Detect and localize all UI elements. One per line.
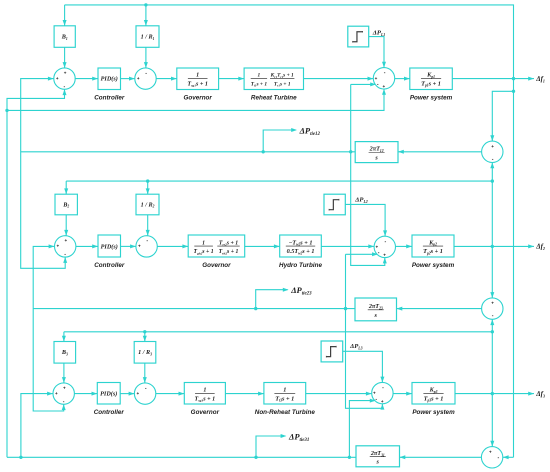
tie-line integrator 2piT12/s <box>355 142 398 163</box>
svg-text:-: - <box>64 252 66 258</box>
wire tie31 label arrow <box>256 434 286 457</box>
wire governor sum to governor 3 <box>156 392 185 396</box>
wire top line to B1 <box>63 5 67 26</box>
svg-text:1: 1 <box>202 240 205 246</box>
svg-text:Tsg1​s + 1: Tsg1​s + 1 <box>187 81 208 87</box>
svg-text:+: + <box>383 253 386 258</box>
wire area2 frequency feedback top line <box>66 179 494 182</box>
label Power system 1 <box>410 94 453 101</box>
svg-text:1: 1 <box>196 73 199 79</box>
svg-text:Reheat Turbine: Reheat Turbine <box>251 94 297 101</box>
sum junction ACE area 3 <box>53 383 74 405</box>
label Hydro Turbine <box>279 262 322 269</box>
wire tie23 vertical to area2 ACE and area3 ACE sum <box>33 244 65 411</box>
turbine block area 2 (hydro) <box>280 235 322 257</box>
svg-text:1 / R1​: 1 / R1​ <box>141 33 155 40</box>
wire ACE sum to controller 3 <box>74 392 97 396</box>
svg-text:-: - <box>145 70 147 76</box>
svg-text:+: + <box>64 70 67 75</box>
svg-text:Controller: Controller <box>94 409 125 416</box>
wire tie23 to area2 power sum lower-left and area3 power sum bottom <box>346 252 385 409</box>
svg-text:Power system: Power system <box>412 409 455 416</box>
wire tie31 vertical to area3 ACE sum <box>21 392 53 458</box>
wire B2 to sum <box>64 215 68 236</box>
svg-text:1 / R3​: 1 / R3​ <box>138 349 152 356</box>
svg-text:s: s <box>376 459 380 466</box>
wire ACE sum to controller 2 <box>76 244 98 248</box>
svg-text:-: - <box>492 156 494 162</box>
governor block area 1 <box>177 68 219 90</box>
svg-text:+: + <box>373 391 376 396</box>
svg-text:Tr1​s + 1: Tr1​s + 1 <box>274 81 291 87</box>
gain B2 <box>55 194 77 215</box>
sum junction governor area 2 <box>136 236 157 257</box>
sum junction governor area 3 <box>134 383 155 404</box>
tie-line integrator 2piT23/s <box>355 298 397 321</box>
svg-text:-: - <box>498 455 500 461</box>
svg-text:+: + <box>489 449 492 454</box>
wire governor to turbine 1 <box>219 77 245 81</box>
wire tie12 vertical to area1 ACE and area2 power sum <box>21 77 67 269</box>
governor block area 2 (hydro governor) <box>188 235 245 257</box>
wire controller to governor sum 3 <box>120 392 134 396</box>
wire power sum to power system 1 <box>395 77 410 81</box>
label Non-Reheat Turbine <box>255 409 316 416</box>
wire governor sum to governor 1 <box>156 77 177 81</box>
svg-text:B2​: B2​ <box>62 201 69 208</box>
svg-text:Hydro Turbine: Hydro Turbine <box>279 262 322 269</box>
svg-text:Controller: Controller <box>94 262 125 269</box>
svg-text:Tp2​s + 1: Tp2​s + 1 <box>423 248 443 255</box>
svg-text:PID(s): PID(s) <box>101 243 118 250</box>
svg-text:1: 1 <box>283 387 286 394</box>
svg-text:-: - <box>378 250 380 256</box>
svg-text:1: 1 <box>203 388 206 394</box>
wire tie23 label arrow <box>256 288 289 309</box>
label Governor 2 <box>202 262 231 269</box>
svg-text:+: + <box>57 244 60 249</box>
svg-text:-: - <box>382 385 384 391</box>
controller PID3 <box>97 383 120 405</box>
wire turbine to power sum 2 <box>321 244 374 248</box>
wire Df3 output <box>455 392 534 396</box>
controller PID2 <box>98 235 121 257</box>
wire area3 frequency feedback top line <box>64 330 494 333</box>
wire 1/R3 to governor sum <box>143 363 147 383</box>
svg-text:+: + <box>55 391 58 396</box>
label DP_L2 <box>354 196 368 203</box>
wire B1 to sum <box>63 47 67 68</box>
wire tie31 left vertical to area1 sums <box>5 89 66 457</box>
droop gain 1/R1 <box>136 26 159 48</box>
wire tie31 distribution line <box>7 456 356 459</box>
wire turbine to power sum 1 <box>304 77 374 81</box>
wire Df2 up into tie sum 12 <box>490 163 494 247</box>
svg-text:-: - <box>145 385 147 391</box>
svg-text:−Tw2​s + 1: −Tw2​s + 1 <box>289 239 313 246</box>
svg-text:Tp1​s + 1: Tp1​s + 1 <box>421 80 441 87</box>
wire turbine to power sum 3 <box>306 392 372 396</box>
wire controller to governor sum 2 <box>121 244 136 248</box>
wire tie23 distribution line <box>33 307 355 310</box>
svg-text:s: s <box>374 155 378 162</box>
svg-text:+: + <box>64 238 67 243</box>
svg-text:Governor: Governor <box>191 409 220 416</box>
wire Df2 output <box>454 244 534 248</box>
svg-text:B1​: B1​ <box>61 33 68 40</box>
svg-text:Trs2​s + 1: Trs2​s + 1 <box>219 240 238 246</box>
wire load step to power sum 2 <box>345 204 387 236</box>
wire tie sum tie12 to integrator box <box>398 150 482 154</box>
wire top line to 1/R1 <box>144 3 148 26</box>
sum junction power area 3 <box>372 382 393 404</box>
gain B3 <box>54 342 76 364</box>
sum junction ACE area 1 <box>54 68 75 90</box>
wire 1/R2 to governor sum <box>146 215 150 236</box>
label DP_L1 <box>372 30 386 37</box>
label Controller 2 <box>94 262 125 269</box>
wire load step to power sum 3 <box>343 351 385 382</box>
power system block area 1 <box>410 68 453 90</box>
svg-text:+: + <box>136 391 139 396</box>
turbine block area 3 (non-reheat) <box>264 383 306 405</box>
label Df1 <box>535 75 545 83</box>
sum junction power area 2 <box>374 236 395 258</box>
label DPtie12 <box>299 125 321 136</box>
wire top line to B3 <box>62 332 66 342</box>
svg-text:B3​: B3​ <box>61 349 68 356</box>
svg-text:+: + <box>63 385 66 390</box>
wire governor to turbine 3 <box>225 392 264 396</box>
sum junction governor area 1 <box>135 68 156 89</box>
load step source 2 <box>324 194 345 215</box>
wire top line to 1/R3 <box>143 330 147 341</box>
label Controller 3 <box>94 409 125 416</box>
wire 1/R1 to governor sum <box>144 47 148 68</box>
load step source 3 <box>321 341 343 362</box>
wire tie12 to area1 power sum lower-left <box>351 82 387 265</box>
svg-text:Tt1​s + 1: Tt1​s + 1 <box>251 81 268 87</box>
svg-text:-: - <box>146 238 148 244</box>
svg-text:Power system: Power system <box>412 262 455 269</box>
sum junction tie23 <box>482 298 503 319</box>
label DP_L3 <box>349 343 363 350</box>
wire top line to B2 <box>64 181 68 194</box>
svg-text:-: - <box>384 70 386 76</box>
svg-text:Non-Reheat Turbine: Non-Reheat Turbine <box>255 409 316 416</box>
wire tie31 to area3 power sum lower-left <box>349 399 375 458</box>
svg-text:+: + <box>491 144 494 149</box>
svg-text:+: + <box>375 245 378 250</box>
svg-text:Power system: Power system <box>410 94 453 101</box>
sum junction ACE area 2 <box>54 236 75 258</box>
wire tie sum tie23 to integrator box <box>397 307 482 311</box>
svg-text:-: - <box>377 82 379 88</box>
svg-text:Controller: Controller <box>94 94 125 101</box>
svg-text:+: + <box>375 76 378 81</box>
svg-text:-: - <box>492 313 494 319</box>
wire load step to power sum 1 <box>369 37 386 68</box>
wire Df1 output <box>452 77 534 81</box>
power system block area 3 <box>412 383 455 405</box>
svg-text:1 / R2​: 1 / R2​ <box>141 201 155 208</box>
svg-text:1: 1 <box>258 73 261 79</box>
svg-text:+: + <box>137 76 140 81</box>
svg-text:+: + <box>382 84 385 89</box>
svg-text:Tsg3​s + 1: Tsg3​s + 1 <box>195 396 216 402</box>
wire Df2 down into tie sum 23 <box>490 246 494 298</box>
svg-text:Governor: Governor <box>184 94 213 101</box>
svg-text:Tgh2​s + 1: Tgh2​s + 1 <box>194 249 214 255</box>
wire governor to turbine 2 <box>245 244 280 248</box>
gain B1 <box>54 26 75 48</box>
wire power sum to power system 3 <box>393 392 412 396</box>
svg-text:+: + <box>56 76 59 81</box>
svg-text:Tt3​s + 1: Tt3​s + 1 <box>275 395 294 402</box>
wire power sum to power system 2 <box>396 244 413 248</box>
wire area1 frequency feedback top line <box>65 5 514 457</box>
wire Df3 up into tie sum 23 <box>490 319 494 393</box>
label Controller 1 <box>94 94 125 101</box>
label Df3 <box>535 390 545 398</box>
label Governor 1 <box>184 94 213 101</box>
turbine block area 1 (reheat) <box>244 68 303 90</box>
wire tie12 label arrow <box>263 128 297 152</box>
wire Df3 down into tie sum 31 <box>490 394 494 447</box>
wire tie12 distribution line <box>21 150 356 153</box>
svg-text:+: + <box>138 244 141 249</box>
load step source 1 <box>348 26 369 47</box>
label Power system 2 <box>412 262 455 269</box>
wire tie sum tie31 to integrator box <box>400 455 482 459</box>
svg-text:PID(s): PID(s) <box>101 76 118 83</box>
svg-text:-: - <box>63 399 65 405</box>
label Power system 3 <box>412 409 455 416</box>
sum junction tie12 <box>482 141 503 162</box>
svg-text:PID(s): PID(s) <box>100 391 117 398</box>
label Governor 3 <box>191 409 220 416</box>
svg-text:-: - <box>64 84 66 90</box>
wire ACE sum to controller 1 <box>75 77 98 81</box>
svg-text:-: - <box>385 239 387 245</box>
tie-line integrator 2piT31/s <box>356 446 400 467</box>
label Reheat Turbine <box>251 94 297 101</box>
sum junction tie 31 <box>481 447 502 468</box>
svg-text:+: + <box>491 301 494 306</box>
wire top line to 1/R2 <box>146 179 150 194</box>
svg-text:-: - <box>375 396 377 402</box>
power system block area 2 <box>412 235 454 257</box>
governor block area 3 <box>184 383 225 405</box>
wire tie31 to area1 power sum <box>7 89 386 110</box>
svg-text:+: + <box>381 399 384 404</box>
wire governor sum to governor 2 <box>157 244 188 248</box>
droop gain 1/R3 <box>134 342 156 364</box>
label DPtie31 <box>288 431 309 442</box>
svg-text:Trh2​s + 1: Trh2​s + 1 <box>219 249 239 255</box>
svg-text:Governor: Governor <box>202 262 231 269</box>
droop gain 1/R2 <box>136 194 159 215</box>
wire Df1 into tie sum 31 right <box>503 455 514 459</box>
controller PID1 <box>98 68 121 90</box>
svg-text:s: s <box>374 312 378 319</box>
label Df2 <box>535 243 545 251</box>
sum junction power area 1 <box>373 68 394 89</box>
wire controller to governor sum 1 <box>121 77 135 81</box>
svg-text:Tp3​s + 1: Tp3​s + 1 <box>424 395 444 402</box>
wire B3 to sum <box>62 363 66 383</box>
label DPtie23 <box>290 285 312 296</box>
wire Df1 tap to tie sum 12 <box>490 90 515 142</box>
